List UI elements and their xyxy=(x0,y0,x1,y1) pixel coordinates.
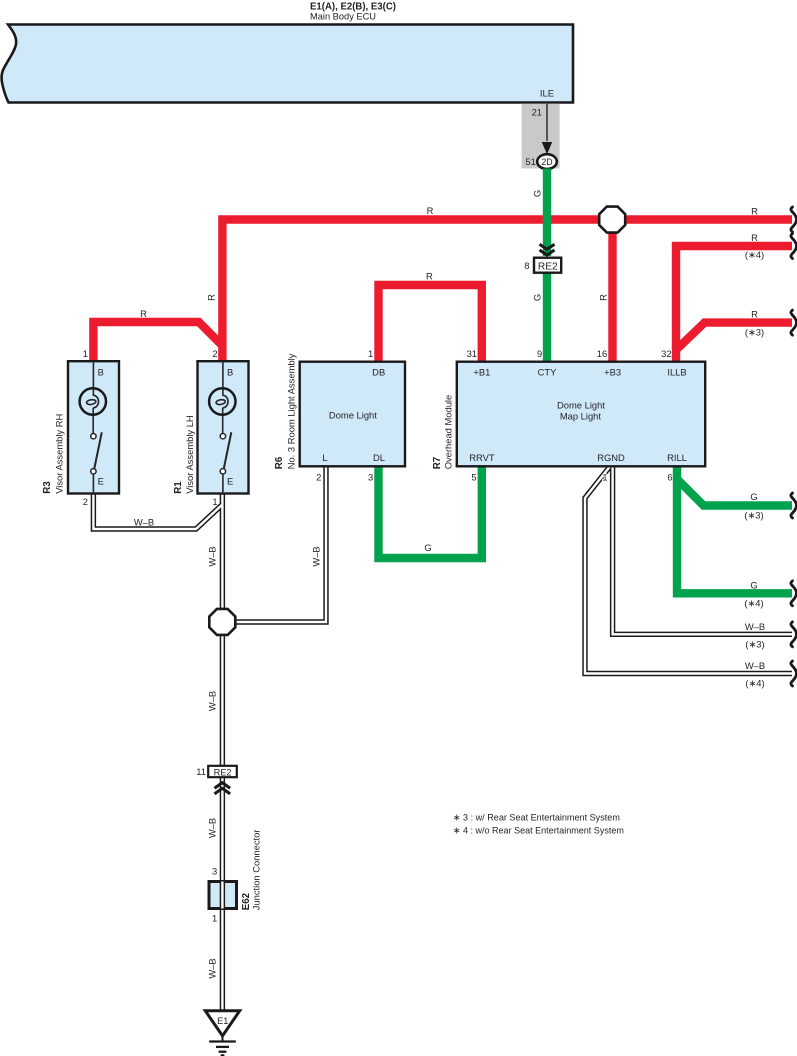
break symbol G (*4) xyxy=(791,581,797,606)
break symbol R main xyxy=(791,207,797,232)
svg-text:9: 9 xyxy=(537,348,542,359)
svg-text:1: 1 xyxy=(368,348,373,359)
bulb R3 xyxy=(80,388,106,414)
svg-text:2D: 2D xyxy=(541,157,552,167)
wire G from RILL pin 6 to (*4) line xyxy=(677,466,792,593)
svg-text:Visor Assembly LH: Visor Assembly LH xyxy=(184,415,195,494)
junction connector box E62 xyxy=(209,882,237,909)
svg-text:2: 2 xyxy=(83,496,88,507)
break symbol G (*3) xyxy=(791,493,797,518)
wire W-B junction to R6 pin L xyxy=(236,466,326,622)
svg-text:1: 1 xyxy=(212,496,217,507)
wire W-B junction down to RE2 xyxy=(220,635,225,766)
svg-text:CTY: CTY xyxy=(538,367,557,378)
junction octagon on red line xyxy=(599,207,625,233)
svg-text:E: E xyxy=(98,476,104,487)
break symbol R (*3) xyxy=(791,310,797,335)
wire W-B RGND pin 1 to (*3) right edge xyxy=(613,466,792,634)
svg-text:1: 1 xyxy=(83,348,88,359)
wire R (*3) branch from ILLB wire xyxy=(677,323,792,349)
connector RE2 (pin 11) xyxy=(208,766,237,777)
svg-text:R: R xyxy=(751,205,758,216)
wire break squiggles at right edge xyxy=(791,207,797,686)
wire W-B R3 pin 2 link to R1 wire xyxy=(93,494,222,530)
break symbol W-B (*4) xyxy=(791,661,797,686)
svg-text:Junction Connector: Junction Connector xyxy=(250,830,261,911)
svg-text:Map Light: Map Light xyxy=(560,410,602,421)
overhead module box R7 xyxy=(457,362,705,467)
visor assembly RH box R3 xyxy=(68,361,119,493)
ground triangle E1 xyxy=(205,1011,239,1036)
svg-text:11: 11 xyxy=(196,766,206,777)
svg-text:W–B: W–B xyxy=(311,546,322,566)
svg-text:R: R xyxy=(751,309,758,320)
wire G from 2D oval to chevrons xyxy=(543,169,551,257)
wire R (*4) line to ILLB pin 32 xyxy=(676,246,792,362)
wire G loop DL pin 3 to RRVT pin 5 xyxy=(379,466,482,558)
svg-text:ILLB: ILLB xyxy=(667,367,686,378)
break symbol R (*4) xyxy=(791,234,797,259)
svg-text:DL: DL xyxy=(373,452,385,463)
switch R1 xyxy=(220,434,225,439)
connector RE2 (pin 8) xyxy=(534,258,561,273)
svg-text:+B1: +B1 xyxy=(473,367,490,378)
svg-text:R7: R7 xyxy=(432,456,443,469)
break symbol W-B (*3) xyxy=(791,622,797,647)
svg-text:Overhead Module: Overhead Module xyxy=(443,395,454,470)
svg-text:RE2: RE2 xyxy=(214,767,232,777)
svg-text:W–B: W–B xyxy=(207,546,218,566)
svg-text:W–B: W–B xyxy=(134,517,154,528)
svg-text:3: 3 xyxy=(212,866,217,877)
svg-text:RRVT: RRVT xyxy=(469,452,495,463)
svg-text:E1: E1 xyxy=(217,1016,228,1026)
svg-text:3: 3 xyxy=(368,471,373,482)
svg-text:G: G xyxy=(532,294,543,301)
svg-text:(∗3): (∗3) xyxy=(745,327,764,338)
wire W-B RGND pin 1 to (*4) right edge xyxy=(585,467,792,674)
thin arrow from ILE pin xyxy=(546,104,548,141)
svg-text:2: 2 xyxy=(212,348,217,359)
svg-text:1: 1 xyxy=(602,471,607,482)
wire G from RE2 to CTY pin 9 xyxy=(543,273,551,362)
svg-text:R: R xyxy=(140,308,147,319)
wire R loop DB pin 1 to +B1 pin 31 xyxy=(379,285,482,362)
svg-text:W–B: W–B xyxy=(207,958,218,978)
wire W-B RE2 down through E62 to ground E1 xyxy=(220,778,225,1012)
svg-text:(∗4): (∗4) xyxy=(745,249,764,260)
svg-text:RE2: RE2 xyxy=(538,262,558,273)
svg-text:ILE: ILE xyxy=(540,88,554,99)
svg-text:5: 5 xyxy=(471,471,476,482)
svg-text:G: G xyxy=(750,491,757,502)
chevron pass-through arrows on W-B wire xyxy=(215,783,231,789)
svg-text:R: R xyxy=(426,270,433,281)
svg-text:2: 2 xyxy=(316,471,321,482)
svg-text:Dome Light: Dome Light xyxy=(557,400,605,411)
svg-text:(∗3): (∗3) xyxy=(744,510,763,521)
wire W-B through E62 xyxy=(220,882,225,909)
svg-text:Main Body ECU: Main Body ECU xyxy=(310,10,376,21)
svg-text:G: G xyxy=(532,190,543,197)
svg-text:21: 21 xyxy=(532,106,542,117)
svg-text:Dome Light: Dome Light xyxy=(329,409,377,420)
svg-text:L: L xyxy=(322,452,327,463)
wire W-B R1 pin 1 down to junction xyxy=(220,494,225,610)
svg-text:DB: DB xyxy=(372,367,385,378)
svg-text:(∗3): (∗3) xyxy=(745,639,764,650)
svg-text:R3: R3 xyxy=(42,481,53,494)
svg-text:No. 3 Room Light Assembly: No. 3 Room Light Assembly xyxy=(285,353,296,469)
bulb R1 xyxy=(209,388,235,414)
junction octagon on W-B line xyxy=(209,609,235,635)
svg-text:RGND: RGND xyxy=(597,452,625,463)
No. 3 room light assembly box R6 xyxy=(300,362,405,467)
wire G branch RILL to (*3) line xyxy=(678,480,793,506)
svg-text:R1: R1 xyxy=(173,481,184,494)
visor assembly LH box R1 xyxy=(198,361,249,493)
svg-text:∗ 4 : w/o Rear Seat Entertainm: ∗ 4 : w/o Rear Seat Entertainment System xyxy=(453,824,624,835)
white cores of W-B wires xyxy=(93,466,792,1011)
svg-text:B: B xyxy=(227,367,233,378)
svg-text:E: E xyxy=(227,476,233,487)
svg-text:W–B: W–B xyxy=(745,660,765,671)
svg-text:31: 31 xyxy=(467,348,477,359)
svg-text:R: R xyxy=(427,205,434,216)
svg-text:R: R xyxy=(598,294,609,301)
svg-text:R: R xyxy=(206,294,217,301)
svg-text:51: 51 xyxy=(525,156,535,167)
switch R3 xyxy=(91,434,96,439)
svg-text:W–B: W–B xyxy=(745,621,765,632)
svg-text:6: 6 xyxy=(667,471,672,482)
wire R branch to R3 pin 1 (horizontal + diagonal) xyxy=(93,322,223,362)
svg-text:G: G xyxy=(424,542,431,553)
svg-text:RILL: RILL xyxy=(667,452,687,463)
svg-text:∗ 3 : w/ Rear Seat Entertainme: ∗ 3 : w/ Rear Seat Entertainment System xyxy=(453,812,620,823)
svg-text:R: R xyxy=(751,232,758,243)
wire R main horizontal with corner down to R1 pin 2 xyxy=(222,220,792,362)
svg-text:R6: R6 xyxy=(274,456,285,469)
chevron pass-through arrows on green wire xyxy=(540,244,555,249)
svg-text:+B3: +B3 xyxy=(604,367,621,378)
ECU title text xyxy=(310,2,396,22)
svg-text:W–B: W–B xyxy=(207,818,218,838)
gray shading band under ILE pin xyxy=(522,104,560,169)
svg-text:W–B: W–B xyxy=(207,691,218,711)
svg-text:B: B xyxy=(98,367,104,378)
svg-text:16: 16 xyxy=(597,348,607,359)
ground symbol bars xyxy=(222,1036,224,1042)
connector oval 2D xyxy=(537,154,557,169)
svg-text:(∗4): (∗4) xyxy=(745,678,764,689)
svg-text:(∗4): (∗4) xyxy=(744,598,763,609)
svg-text:8: 8 xyxy=(524,260,529,271)
svg-text:G: G xyxy=(750,579,757,590)
svg-text:Visor Assembly RH: Visor Assembly RH xyxy=(54,414,65,494)
svg-text:1: 1 xyxy=(212,913,217,924)
wire R octagon junction drop to +B3 pin 16 xyxy=(608,220,616,362)
Main Body ECU box with torn left edge xyxy=(2,25,573,103)
svg-text:32: 32 xyxy=(661,348,671,359)
